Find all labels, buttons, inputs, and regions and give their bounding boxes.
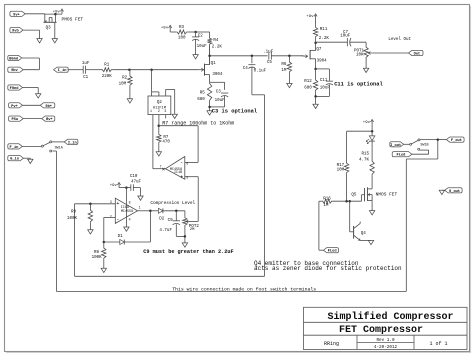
svg-text:Out: Out: [414, 53, 421, 57]
wire: [210, 75, 225, 90]
wire (IC1A out): [138, 210, 152, 213]
tag I_in (input): [54, 67, 69, 73]
svg-text:0.1uF: 0.1uF: [254, 70, 267, 74]
title block: [304, 307, 468, 350]
ground: [101, 268, 106, 272]
tag 9v+: [10, 11, 25, 17]
svg-text:FGnd: FGnd: [10, 86, 19, 91]
wire: [288, 73, 290, 83]
svg-text:1M: 1M: [323, 204, 329, 208]
wire (-in): [103, 217, 116, 243]
svg-text:Rev 1.0: Rev 1.0: [376, 338, 394, 343]
transistor Q5 (NMOS): [351, 187, 397, 201]
ground: [156, 152, 161, 156]
diode D2: [158, 208, 164, 221]
svg-text:680: 680: [197, 98, 205, 102]
svg-text:10M: 10M: [119, 83, 127, 87]
svg-text:10M: 10M: [337, 169, 345, 173]
svg-text:3: 3: [110, 200, 112, 204]
ground: [313, 104, 318, 108]
ground: [52, 39, 57, 43]
svg-text:470: 470: [162, 141, 170, 145]
transistor Q1: [199, 62, 223, 77]
wire (pin3 stub): [165, 115, 167, 119]
note C3 optional: [212, 109, 258, 115]
wire: [315, 19, 317, 26]
svg-text:9bv: 9bv: [11, 68, 18, 73]
wire: [194, 31, 209, 37]
wire: [302, 55, 306, 57]
svg-text:680: 680: [304, 86, 312, 90]
resistor R3: [176, 26, 195, 41]
capacitor C2: [192, 32, 207, 49]
capacitor C7: [340, 31, 351, 46]
svg-text:G_in: G_in: [10, 157, 19, 162]
ground: [138, 196, 143, 200]
svg-text:.1uF: .1uF: [263, 51, 274, 55]
svg-text:PSw: PSw: [11, 118, 18, 122]
wire (pin2 to R7): [157, 115, 160, 127]
resistor R17: [337, 131, 349, 201]
wire: [119, 186, 128, 189]
wire: [208, 96, 224, 111]
svg-text:R12: R12: [304, 80, 312, 84]
svg-text:3904: 3904: [212, 73, 223, 77]
transistor Q3: [44, 18, 57, 31]
tag F_out: [446, 137, 464, 143]
svg-text:R7: R7: [163, 136, 169, 140]
LED D5: [366, 136, 375, 144]
svg-text:R9: R9: [71, 211, 77, 215]
potentiometer POT2: [183, 211, 200, 232]
wire: [22, 58, 40, 70]
wire: [23, 30, 40, 38]
wire: [314, 41, 317, 50]
svg-text:47uF: 47uF: [131, 181, 142, 185]
svg-text:10uF: 10uF: [340, 35, 351, 39]
svg-text:R3: R3: [179, 26, 185, 30]
switch SW1B: [410, 139, 429, 150]
power +9v: [306, 14, 317, 19]
resistor R5: [197, 82, 212, 102]
wire: [371, 141, 373, 160]
transistor Q7: [306, 48, 328, 64]
svg-text:1 of 1: 1 of 1: [429, 341, 447, 347]
svg-text:Pv+: Pv+: [11, 105, 18, 109]
svg-text:C5: C5: [267, 61, 273, 65]
svg-text:PMOS FET: PMOS FET: [62, 16, 84, 22]
potentiometer POT1: [354, 46, 372, 59]
svg-text:R17: R17: [337, 164, 345, 168]
svg-text:+9v: +9v: [161, 27, 169, 31]
wire: [158, 144, 160, 152]
svg-text:-: -: [180, 160, 183, 166]
wire: [271, 55, 303, 58]
capacitor C3: [215, 91, 229, 103]
capacitor C9: [159, 211, 180, 233]
node: [251, 55, 254, 58]
tag G_out: [445, 188, 462, 194]
tag 9vb: [10, 28, 23, 34]
wire: [23, 69, 39, 71]
svg-text:9b+: 9b+: [45, 104, 52, 109]
resistor R16: [322, 197, 333, 208]
svg-text:C3: C3: [216, 91, 222, 95]
note R7 range: [162, 121, 234, 127]
svg-text:FLed: FLed: [397, 153, 406, 158]
svg-text:Compression Level: Compression Level: [150, 201, 195, 206]
ground: [88, 230, 93, 234]
ground: [287, 83, 292, 87]
power +9v: [161, 25, 172, 30]
note C9 minimum: [143, 249, 233, 255]
wire: [52, 150, 56, 152]
wire: [170, 31, 176, 33]
svg-text:G_out: G_out: [449, 190, 460, 194]
svg-text:100K: 100K: [92, 256, 103, 260]
wire: [166, 89, 175, 114]
svg-text:C9 must be greater than 2.2uF: C9 must be greater than 2.2uF: [143, 249, 233, 255]
svg-text:R2: R2: [122, 77, 128, 81]
label Compression Level: [150, 201, 195, 206]
svg-text:SW1A: SW1A: [55, 147, 64, 151]
svg-text:+9v: +9v: [53, 10, 61, 14]
svg-text:2.2K: 2.2K: [212, 46, 223, 50]
wire: [365, 59, 367, 69]
svg-text:10uF: 10uF: [215, 99, 226, 103]
power +9v: [53, 9, 64, 14]
wire: [45, 13, 62, 22]
svg-text:8: 8: [129, 201, 131, 205]
svg-text:+9v: +9v: [363, 121, 371, 125]
resistor R4: [207, 37, 222, 50]
wire: [103, 259, 105, 268]
ground: [172, 114, 177, 118]
wire: [184, 227, 187, 243]
switch SW1A: [41, 141, 63, 152]
svg-text:100: 100: [178, 37, 186, 41]
svg-text:This wire connection made on f: This wire connection made on foot switch…: [172, 287, 316, 293]
svg-text:1uF: 1uF: [82, 62, 90, 66]
tag Bv+: [42, 116, 55, 122]
svg-text:4-20-2012: 4-20-2012: [374, 345, 398, 350]
svg-text:R5: R5: [200, 91, 206, 95]
svg-text:Q2: Q2: [157, 101, 163, 105]
svg-text:1M: 1M: [281, 69, 287, 73]
wire: [150, 210, 158, 212]
svg-text:220K: 220K: [102, 75, 113, 79]
svg-text:Q4: Q4: [361, 232, 367, 236]
svg-text:10K: 10K: [356, 54, 364, 58]
tag PSw: [9, 116, 24, 122]
svg-text:Simplified Compressor: Simplified Compressor: [327, 311, 453, 323]
ground: [207, 111, 212, 115]
tag FLed (bottom): [323, 248, 338, 254]
svg-text:R15: R15: [361, 153, 369, 157]
svg-text:IC1B: IC1B: [174, 171, 182, 175]
wire (IC1B out): [153, 168, 166, 170]
wire: [23, 118, 42, 120]
svg-text:F_in: F_in: [10, 145, 19, 150]
svg-text:R16: R16: [323, 197, 331, 201]
svg-text:SW1B: SW1B: [420, 143, 428, 147]
capacitor C5: [263, 51, 274, 66]
svg-text:+9v: +9v: [110, 184, 118, 188]
capacitor C10: [126, 175, 141, 191]
svg-text:I_out: I_out: [390, 144, 401, 148]
wire: [133, 188, 140, 196]
svg-text:C3 is optional: C3 is optional: [212, 109, 258, 115]
tag G_in: [8, 156, 24, 162]
capacitor C1: [82, 62, 90, 80]
svg-text:acts as zener diode for static: acts as zener diode for static protectio…: [254, 265, 402, 272]
transistor Q4: [354, 222, 367, 241]
wire: [24, 158, 31, 159]
svg-text:NMOS FET: NMOS FET: [376, 191, 398, 197]
wire: [176, 224, 185, 236]
svg-text:100K: 100K: [67, 217, 78, 221]
ground: [28, 159, 33, 163]
op-amp IC1B: [160, 157, 189, 181]
wire: [442, 189, 445, 191]
svg-text:FET Compressor: FET Compressor: [339, 325, 423, 336]
svg-text:-: -: [116, 216, 119, 222]
wire: [195, 40, 197, 55]
svg-text:+: +: [180, 174, 183, 180]
wire: [23, 104, 41, 106]
svg-text:C11 is optional: C11 is optional: [334, 81, 383, 87]
wire (gate net): [332, 195, 364, 203]
svg-text:C9: C9: [168, 219, 174, 223]
wire (R7 node to IC1B -in): [159, 126, 198, 163]
wire: [208, 45, 267, 64]
wire (feedback): [124, 211, 150, 242]
svg-text:1: 1: [139, 205, 141, 209]
tag F_in: [8, 144, 23, 150]
svg-text:4.7K: 4.7K: [359, 158, 370, 162]
svg-text:Q5: Q5: [351, 193, 357, 197]
node +in: [89, 203, 92, 206]
power +9v: [110, 182, 121, 187]
op-amp IC1A: [110, 188, 141, 227]
resistor R1: [102, 63, 113, 79]
wire: [22, 145, 42, 147]
svg-text:4.7uF: 4.7uF: [159, 229, 172, 233]
wire (IC1B +in to POT2 wiper): [185, 177, 198, 222]
diode D1 body: [118, 235, 125, 245]
svg-text:Bv+: Bv+: [46, 118, 53, 122]
tag Pv+: [9, 103, 23, 109]
svg-text:Q3: Q3: [46, 27, 52, 31]
wire: [371, 200, 373, 210]
svg-text:9vb: 9vb: [12, 29, 19, 34]
wire: [54, 23, 56, 39]
svg-text:D1: D1: [118, 235, 124, 239]
opto-FET Q2 H11F1M: [148, 96, 171, 115]
ground: [124, 227, 129, 231]
wire (pin1 to IC1B out): [152, 115, 154, 169]
wire: [25, 14, 45, 22]
power +9v: [363, 119, 374, 124]
resistor R8: [92, 242, 106, 260]
wire: [360, 239, 371, 241]
svg-text:R6: R6: [281, 63, 287, 67]
svg-text:I_in: I_in: [58, 68, 67, 73]
svg-text:6: 6: [186, 161, 188, 165]
wire: [316, 41, 348, 44]
label PMOS FET: [62, 16, 84, 22]
note Q4 zener: [254, 260, 402, 272]
svg-text:RRing: RRing: [324, 341, 339, 347]
tag 9bv: [8, 67, 23, 73]
svg-text:F_out: F_out: [451, 139, 462, 143]
svg-text:2: 2: [158, 109, 160, 113]
tag FGnd: [8, 85, 23, 91]
capacitor C11: [316, 69, 333, 91]
svg-text:BGnd: BGnd: [9, 57, 18, 62]
tag BGnd: [8, 55, 22, 61]
svg-text:I_in: I_in: [68, 140, 77, 145]
svg-text:C10: C10: [130, 175, 138, 179]
wire: [129, 68, 198, 71]
svg-text:10uF: 10uF: [320, 86, 331, 90]
svg-text:R4: R4: [213, 39, 219, 43]
svg-text:Q1: Q1: [211, 62, 217, 66]
svg-text:C2: C2: [198, 35, 204, 39]
svg-text:2M: 2M: [190, 228, 195, 232]
wire: [372, 52, 408, 54]
wire: [404, 143, 410, 145]
wire: [23, 88, 39, 94]
ground: [182, 243, 187, 247]
svg-text:7: 7: [160, 164, 162, 168]
wire (foot switch loop): [56, 140, 437, 292]
wire: [412, 150, 429, 154]
tag I_in (switch): [64, 139, 78, 145]
tag 9b+: [40, 103, 55, 109]
wire: [209, 45, 211, 64]
resistor R6: [281, 56, 291, 73]
note foot switch: [172, 287, 316, 293]
svg-text:9v+: 9v+: [13, 13, 20, 17]
wire: [151, 70, 153, 96]
svg-text:Q7: Q7: [316, 48, 322, 52]
ground: [127, 99, 132, 103]
wire: [314, 59, 317, 70]
wire: [314, 84, 329, 104]
wire: [52, 141, 64, 143]
wire: [319, 201, 324, 250]
svg-text:FLed: FLed: [328, 249, 337, 254]
svg-text:+9v: +9v: [306, 15, 314, 19]
wire: [371, 175, 373, 189]
svg-text:+: +: [116, 201, 119, 207]
tag Out: [409, 50, 424, 56]
svg-text:2.2K: 2.2K: [319, 37, 330, 41]
svg-text:3904: 3904: [317, 59, 328, 63]
wire: [347, 125, 374, 136]
svg-text:C1: C1: [83, 76, 89, 80]
resistor R12: [304, 69, 318, 92]
diode D1: [104, 241, 120, 243]
tag I_out: [390, 142, 404, 148]
svg-text:R8: R8: [94, 251, 100, 255]
resistor R11: [313, 26, 329, 43]
svg-text:Level Out: Level Out: [388, 37, 411, 42]
wire: [163, 210, 185, 213]
wire: [112, 68, 130, 71]
ground: [36, 94, 41, 98]
svg-text:MC4558: MC4558: [121, 210, 133, 214]
wire: [86, 69, 102, 71]
ground: [37, 39, 42, 43]
wire: [350, 42, 366, 46]
svg-text:D2: D2: [159, 218, 165, 222]
svg-text:10uF: 10uF: [197, 45, 208, 49]
resistor R9: [67, 204, 93, 223]
ground: [193, 55, 198, 59]
wire: [420, 138, 447, 141]
wire: [89, 223, 91, 230]
wire: [129, 86, 131, 98]
wire (sidechain loop): [75, 67, 265, 276]
capacitor C4: [243, 56, 267, 74]
ground: [439, 190, 444, 194]
resistor R7: [157, 126, 171, 145]
ground: [369, 211, 374, 215]
resistor R2: [119, 70, 132, 87]
wire: [152, 92, 159, 96]
wire (to Q4): [350, 201, 354, 232]
resistor R15: [359, 153, 374, 176]
note C11 optional: [334, 81, 383, 87]
tag FLed (switch): [392, 152, 412, 158]
svg-text:R11: R11: [320, 28, 328, 32]
svg-text:4: 4: [129, 217, 131, 221]
svg-text:R1: R1: [104, 63, 110, 67]
svg-text:1: 1: [150, 109, 152, 113]
svg-text:C11: C11: [320, 79, 328, 83]
wire: [68, 69, 84, 71]
ground: [368, 240, 373, 244]
ground: [363, 68, 368, 72]
svg-text:C4: C4: [243, 67, 249, 71]
svg-text:3: 3: [164, 109, 166, 113]
label Level Out: [388, 37, 411, 42]
